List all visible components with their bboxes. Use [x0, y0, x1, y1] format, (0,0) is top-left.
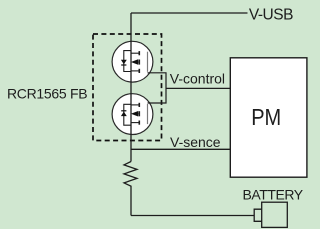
svg-text:V-USB: V-USB — [249, 6, 293, 23]
svg-text:PM: PM — [251, 104, 281, 131]
svg-text:BATTERY: BATTERY — [243, 187, 304, 203]
svg-text:RCR1565 FB: RCR1565 FB — [7, 86, 87, 102]
svg-text:V-sence: V-sence — [170, 134, 221, 150]
svg-text:V-control: V-control — [170, 71, 225, 87]
